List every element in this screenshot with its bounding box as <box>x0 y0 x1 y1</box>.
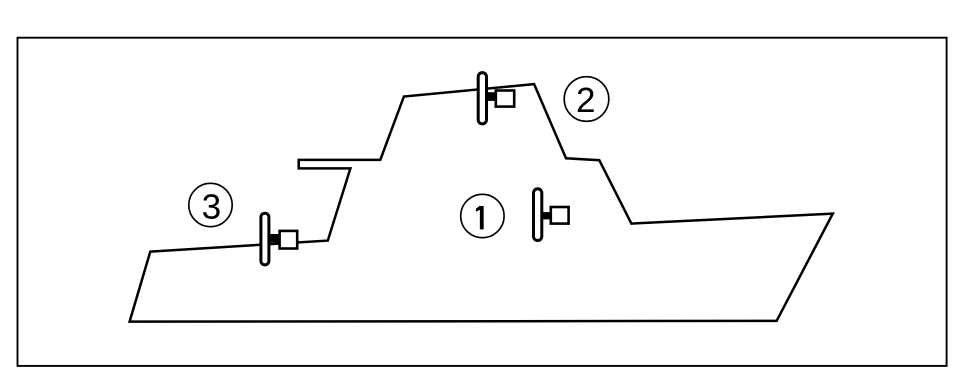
antenna symbol 1 pill <box>534 189 542 241</box>
callout label digit 3 <box>203 194 220 219</box>
antenna symbol 3 square <box>280 231 298 249</box>
callout circle 1 <box>461 194 504 237</box>
antenna symbol 2 pill <box>478 73 486 124</box>
callout label digit 1 <box>476 206 484 229</box>
antenna symbol 3 pill <box>261 213 269 265</box>
callout circle 3 <box>189 183 232 226</box>
callout circle 2 <box>564 77 609 122</box>
antenna symbol 3 connector (filled) <box>269 234 280 243</box>
antenna symbol 1 connector (filled) <box>542 212 551 219</box>
callout label digit 2 <box>578 88 594 112</box>
antenna symbol 1 square <box>551 207 569 224</box>
antenna symbol 2 connector (filled) <box>486 92 496 101</box>
antenna symbol 2 square <box>496 91 514 107</box>
ship hull and superstructure outline <box>130 84 833 322</box>
